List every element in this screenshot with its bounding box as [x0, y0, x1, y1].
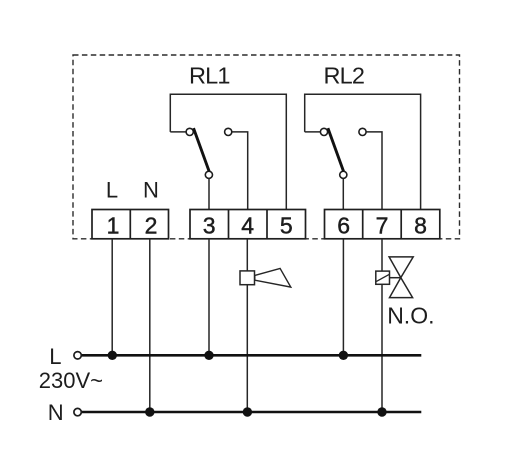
svg-text:5: 5: [280, 212, 293, 238]
svg-text:2: 2: [145, 212, 158, 238]
svg-text:L: L: [106, 178, 118, 203]
svg-text:N.O.: N.O.: [387, 302, 434, 328]
svg-text:N: N: [143, 178, 159, 203]
svg-text:4: 4: [241, 212, 254, 238]
svg-text:230V~: 230V~: [39, 368, 103, 393]
svg-text:1: 1: [107, 212, 120, 238]
svg-text:RL2: RL2: [323, 62, 364, 88]
svg-text:3: 3: [203, 212, 216, 238]
svg-text:L: L: [49, 344, 61, 369]
svg-text:7: 7: [376, 212, 389, 238]
svg-text:N: N: [48, 400, 64, 425]
svg-text:RL1: RL1: [189, 62, 230, 88]
svg-text:6: 6: [337, 212, 350, 238]
svg-text:8: 8: [414, 212, 427, 238]
